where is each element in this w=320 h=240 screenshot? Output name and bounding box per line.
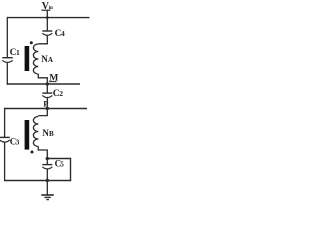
wire bottom rail	[5, 180, 71, 182]
polarity dot NB	[31, 151, 34, 154]
wire C5 to bottom rail	[46, 169, 48, 181]
junction dot at C5 top	[46, 157, 49, 160]
ground bar 2	[44, 196, 50, 198]
ground bar 1	[41, 194, 54, 196]
svg-text:1: 1	[16, 48, 20, 57]
wire Vin lead down	[46, 10, 48, 31]
capacitor C1 curved plate	[2, 60, 12, 62]
capacitor C4 top plate	[42, 30, 52, 32]
wire left vertical upper block	[6, 17, 8, 58]
wire 158 rail to C5	[46, 159, 48, 165]
wire top rail	[7, 17, 89, 19]
wire P rail	[5, 108, 87, 110]
svg-text:5: 5	[60, 162, 64, 169]
wire C1 bottom lead	[6, 62, 8, 84]
wire M to C2	[46, 84, 48, 93]
capacitor C2 top plate	[42, 92, 52, 94]
wire output rail right	[47, 159, 70, 182]
wire NA bottom tail	[38, 74, 47, 84]
capacitor C5 curved plate	[42, 167, 52, 169]
capacitor C4 curved plate	[42, 33, 52, 35]
svg-text:4: 4	[61, 29, 65, 38]
capacitor C3 label	[10, 137, 20, 147]
node M underline	[49, 81, 57, 83]
junction dot at top wire	[46, 16, 49, 19]
capacitor C5 top plate	[42, 164, 52, 166]
winding NB label	[42, 128, 54, 138]
wire C4 to winding NA	[38, 35, 47, 43]
winding NA	[33, 44, 38, 74]
junction dot node M	[46, 82, 49, 85]
svg-text:3: 3	[16, 139, 20, 147]
terminal bar Vin	[42, 9, 51, 11]
junction dot bottom rail	[46, 179, 49, 182]
polarity dot NA	[30, 41, 33, 44]
wire C3 bottom lead	[4, 142, 6, 181]
capacitor C4 label	[55, 29, 65, 39]
wire ground lead	[46, 181, 48, 195]
transformer core NA	[25, 46, 30, 71]
transformer core NB	[25, 120, 30, 150]
capacitor C2 label	[53, 89, 63, 99]
wire left vertical lower block	[4, 108, 6, 137]
node Vin label	[42, 1, 53, 12]
svg-text:A: A	[48, 56, 53, 64]
capacitor C2 curved plate	[42, 95, 52, 97]
capacitor C3 top plate	[0, 136, 10, 138]
winding NB	[33, 117, 38, 147]
capacitor C1 label	[10, 48, 20, 58]
capacitor C5 label	[55, 159, 65, 169]
svg-text:B: B	[49, 130, 54, 138]
wire C2 to P rail	[46, 98, 48, 109]
wire NB bottom tail	[38, 147, 47, 159]
ground bar 3	[46, 199, 49, 201]
junction dot node P	[46, 107, 49, 110]
svg-text:2: 2	[59, 89, 63, 98]
capacitor C3 curved plate	[0, 140, 10, 142]
wire P to winding NB	[38, 109, 47, 116]
capacitor C1 top plate	[2, 57, 12, 59]
wire M rail	[7, 83, 80, 85]
winding NA label	[41, 54, 53, 64]
